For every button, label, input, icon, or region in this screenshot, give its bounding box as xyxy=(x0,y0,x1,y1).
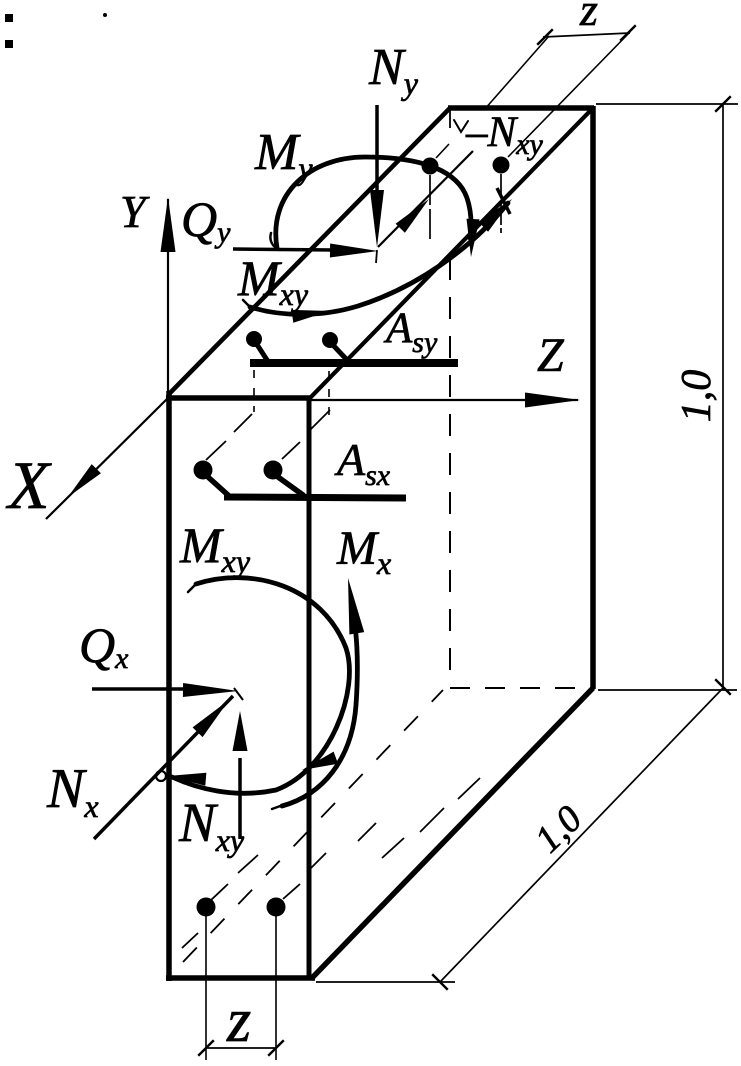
extension line below bottom dot 1 xyxy=(205,916,207,1060)
hatch dash above bottom dot 2 xyxy=(308,853,326,871)
force Ny shaft xyxy=(375,105,379,200)
dashed line below Asy dot 1 xyxy=(253,370,255,412)
svg-text:1,0: 1,0 xyxy=(674,370,720,423)
small circle at Mxy front arc end xyxy=(156,771,166,781)
hidden rebar dash front dot1 a xyxy=(206,441,226,460)
rebar dot bottom 2 xyxy=(267,898,286,917)
Z axis arrowhead xyxy=(525,393,580,408)
rebar dot Asy-1 (top face) xyxy=(246,331,262,347)
scan speck left margin 2 xyxy=(5,40,13,48)
tick top right dim xyxy=(715,96,731,112)
rebar dot Asx-1 (front face) xyxy=(194,461,213,480)
Y axis line xyxy=(167,199,169,394)
front face left edge (wire) xyxy=(166,391,172,981)
moment Mxy top arc start tick xyxy=(243,300,250,307)
force Nxy shaft (front) xyxy=(238,758,242,839)
front face top edge A-B xyxy=(166,395,311,401)
moment Mx arc xyxy=(282,600,357,806)
moment Mxy arc (front) xyxy=(172,578,349,794)
right face far edge B'-C' xyxy=(590,106,596,689)
svg-text:z: z xyxy=(579,0,598,35)
extension line of D'-C' for bottom dim xyxy=(598,689,737,691)
rebar dot top-right 1 xyxy=(422,158,439,175)
hatch dash front face bottom xyxy=(182,933,198,948)
hidden rebar dash front dot2 a xyxy=(282,442,300,459)
tick left of bottom dim xyxy=(432,974,448,990)
extension stub above rebar dot top 1 xyxy=(436,144,449,158)
rebar dot top-right 2 xyxy=(493,157,510,174)
force Nx arrowhead xyxy=(193,700,229,737)
top face left edge A-A' xyxy=(168,107,451,395)
force Nx shaft xyxy=(94,696,233,839)
moment Mx start hook xyxy=(272,805,283,809)
moment Mxy end arrowhead (top) xyxy=(478,199,512,232)
small tick near corner A' xyxy=(454,120,468,132)
force Qx shaft xyxy=(92,687,186,691)
front face right edge B-C xyxy=(307,396,312,980)
rebar hook Asy-1 xyxy=(256,343,267,360)
rebar dot Asx-2 (front face) xyxy=(264,461,283,480)
tick left z bottom xyxy=(198,1040,214,1056)
hatch dash near bottom dot 2 xyxy=(283,884,300,899)
hidden edge D-D' dashed xyxy=(183,690,443,962)
hatch dash right face low 2 xyxy=(382,838,404,858)
rebar dot bottom 1 xyxy=(197,898,216,917)
front face bottom edge D-C xyxy=(166,975,315,981)
extension line of bottom edge xyxy=(316,981,455,983)
moment Mxy front mid arrowhead xyxy=(302,752,338,770)
X axis arrowhead xyxy=(68,464,101,497)
moment Mxy front end arrowhead xyxy=(168,773,206,786)
rebar bar Asx xyxy=(224,497,406,498)
dimension line 1,0 right xyxy=(722,104,724,687)
moment Mx arrowhead xyxy=(348,578,364,635)
dimension line z top xyxy=(543,33,630,37)
hidden edge A'-D' dashed xyxy=(449,258,451,686)
hidden edge stub below A' xyxy=(449,110,451,128)
Y axis arrowhead xyxy=(161,197,176,252)
moment My arrowhead xyxy=(467,219,480,257)
X axis line xyxy=(46,396,170,519)
rebar hook Asx-1 xyxy=(208,477,228,495)
right face bottom edge C-C' xyxy=(311,688,593,979)
scan speck left margin 1 xyxy=(5,14,13,22)
extension line top right xyxy=(596,103,738,105)
small tail below Ny tip xyxy=(376,250,377,263)
force Nxy arrowhead (front) xyxy=(233,711,248,751)
Z axis line xyxy=(311,399,578,401)
line below top dot 1 xyxy=(429,175,431,240)
hidden rebar dash front dot2 b xyxy=(310,410,330,430)
hidden edge D'-C' dashed xyxy=(450,687,590,689)
tick junction right dim xyxy=(715,679,731,695)
force -Nxy shaft (top) xyxy=(378,151,473,247)
tick right z bottom xyxy=(268,1040,284,1056)
tick right z top xyxy=(620,25,636,41)
extension line from rebar dot to z dim xyxy=(508,32,630,157)
force Ny arrowhead xyxy=(370,190,384,247)
scan speck top left xyxy=(103,13,107,17)
moment Mxy mid arrowhead (top) xyxy=(292,310,331,323)
hidden rebar dash front dot1 b xyxy=(234,414,252,432)
extension line from top face to z dim xyxy=(484,36,549,110)
rebar dot Asy-2 (top face) xyxy=(322,332,338,348)
extension line below bottom dot 2 xyxy=(275,916,277,1060)
rebar hook Asy-2 xyxy=(332,344,348,361)
hatch dash right face low 4 xyxy=(458,778,480,799)
rebar hook Asx-2 xyxy=(278,477,303,495)
rebar bar Asy xyxy=(250,359,458,367)
hatch dash right face low 3 xyxy=(420,808,444,832)
dimension line 1,0 bottom xyxy=(440,688,723,982)
moment Mxy arc (top) xyxy=(250,203,508,314)
force Qx arrowhead xyxy=(183,683,238,697)
tick left z top xyxy=(537,29,553,45)
force Qy arrowhead xyxy=(330,244,378,258)
hatch dash above bottom dot 1 xyxy=(238,855,258,873)
barb stroke at Mxy top arc end xyxy=(497,188,510,214)
svg-text:Y: Y xyxy=(120,186,150,237)
moment My arc start hook xyxy=(270,233,280,250)
svg-text:Z: Z xyxy=(537,329,565,382)
dashed line below Asy dot 2 xyxy=(328,371,330,418)
line below top dot 2 xyxy=(500,174,502,233)
dimension line z bottom xyxy=(206,1047,276,1049)
moment My arc xyxy=(276,157,471,248)
top face far edge A'-B' xyxy=(448,105,594,111)
svg-text:X: X xyxy=(5,447,52,523)
force Qy shaft xyxy=(233,249,334,250)
hatch dash right face low 1 xyxy=(358,823,376,841)
force -Nxy arrowhead (top) xyxy=(396,199,429,233)
tick at Qx tip xyxy=(234,688,243,700)
top face right edge B-B' xyxy=(309,109,592,399)
hatch dash near bottom dot 1 xyxy=(210,884,228,901)
svg-text:z: z xyxy=(226,987,251,1055)
moment Mxy front start tick xyxy=(188,584,196,592)
